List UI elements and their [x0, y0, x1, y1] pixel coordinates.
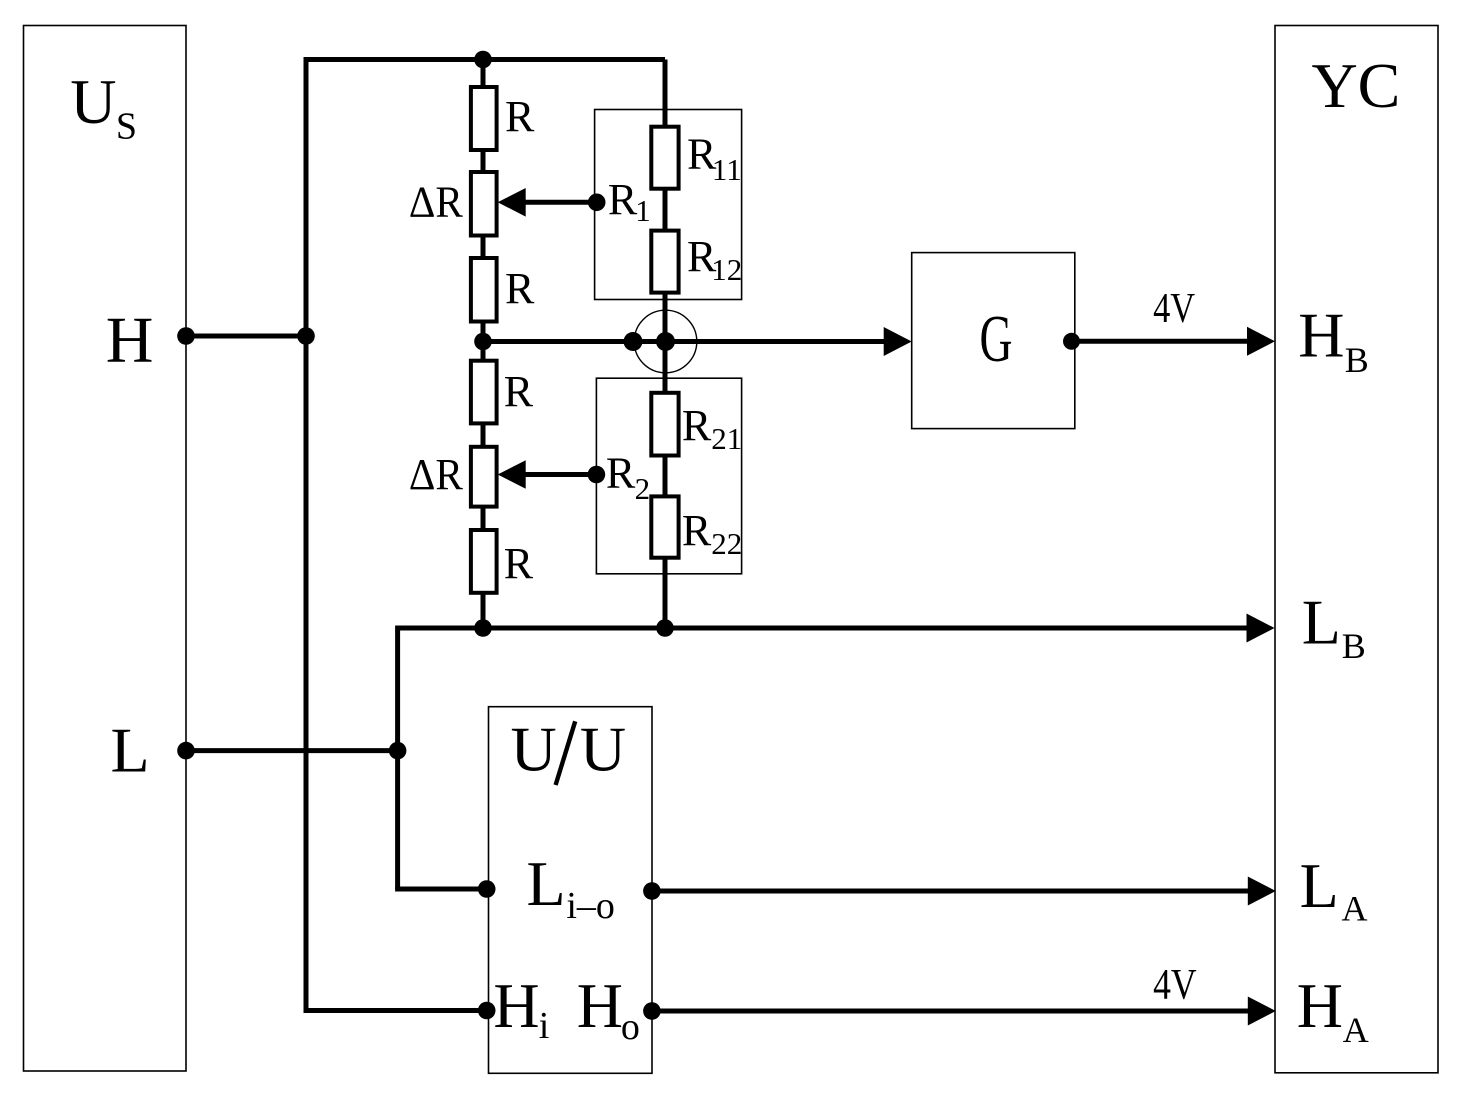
- label U/U: [510, 714, 626, 785]
- resistor R12: [651, 231, 678, 293]
- junction left of circle: [624, 332, 643, 351]
- resistor R (chain1 top): [471, 87, 497, 150]
- svg-text:G: G: [980, 302, 1013, 376]
- wire H_A output: [652, 1009, 1250, 1014]
- label R_12: [687, 232, 742, 287]
- svg-text:A: A: [1343, 1010, 1369, 1050]
- resistor R (chain1 bottom): [471, 530, 497, 593]
- resistor R (chain1 fourth): [471, 361, 497, 424]
- svg-text:R: R: [608, 175, 638, 224]
- wire L_i-o input: [395, 887, 488, 892]
- resistor R21: [651, 393, 678, 456]
- wire H from U_S to riser: [186, 334, 306, 339]
- svg-text:R: R: [505, 92, 535, 141]
- group box R2: [596, 378, 741, 574]
- junction L_i-o input: [478, 880, 496, 898]
- label H_A: [1297, 970, 1369, 1050]
- label L_A: [1300, 850, 1368, 929]
- resistor R11: [651, 127, 678, 189]
- svg-text:L: L: [111, 715, 150, 786]
- svg-text:21: 21: [711, 421, 742, 456]
- junction L at U_S edge: [177, 742, 195, 760]
- junction G output: [1063, 333, 1080, 350]
- label H_i: [493, 970, 549, 1047]
- resistor R22: [651, 496, 678, 557]
- svg-text:H: H: [493, 970, 539, 1041]
- svg-text:2: 2: [635, 471, 651, 506]
- label R_2: [606, 449, 650, 506]
- junction L_i-o output: [643, 882, 661, 900]
- arrowhead H_A: [1248, 997, 1276, 1026]
- svg-text:22: 22: [711, 526, 742, 561]
- wire H_i input: [304, 1008, 489, 1013]
- svg-text:L: L: [1300, 850, 1339, 921]
- label R_21: [682, 401, 742, 456]
- wire top bus: [304, 57, 666, 62]
- svg-text:B: B: [1342, 626, 1366, 666]
- svg-text:12: 12: [711, 252, 742, 287]
- arrowhead L_B: [1247, 614, 1275, 643]
- circle sampling node: [634, 310, 697, 373]
- svg-text:U: U: [510, 714, 556, 785]
- svg-text:R: R: [606, 449, 636, 498]
- svg-text:ΔR: ΔR: [409, 450, 464, 499]
- label L_B: [1302, 587, 1366, 666]
- svg-text:L: L: [527, 848, 566, 919]
- wire L from U_S to riser: [186, 748, 400, 753]
- block U/U isolator: [489, 707, 653, 1074]
- svg-text:R: R: [504, 539, 534, 588]
- resistor deltaR (chain1 upper potentiometer): [471, 172, 497, 236]
- block YC telemetry: [1275, 26, 1438, 1073]
- svg-text:1: 1: [635, 193, 651, 228]
- arrowhead into G: [884, 327, 912, 356]
- wire vertical from L_B bus to L_i-o (x=397.6): [395, 626, 400, 890]
- arrowhead L_A: [1248, 877, 1276, 906]
- svg-text:R: R: [504, 367, 534, 416]
- block G amplifier: [912, 253, 1075, 429]
- junction L_B / chain1: [474, 619, 492, 637]
- label R_1: [608, 175, 651, 228]
- group box R1: [595, 110, 742, 300]
- junction H / riser: [297, 327, 315, 345]
- svg-text:B: B: [1345, 340, 1369, 380]
- svg-text:i: i: [539, 1005, 550, 1047]
- svg-text:11: 11: [712, 152, 742, 187]
- wire R1 wiper arrow line: [521, 200, 597, 205]
- wire G output: [1075, 339, 1250, 344]
- arrowhead R1 wiper: [498, 188, 526, 217]
- svg-text:YC: YC: [1311, 50, 1400, 121]
- svg-text:S: S: [116, 105, 137, 147]
- svg-text:R: R: [682, 506, 712, 555]
- svg-text:4V: 4V: [1153, 286, 1195, 332]
- junction H at U_S edge: [177, 327, 195, 345]
- junction L / riser: [389, 742, 407, 760]
- wire node to amplifier G: [483, 339, 887, 344]
- svg-text:H: H: [106, 303, 154, 376]
- label L_i-o: [527, 848, 615, 927]
- wire resistor chain 1 (x=483): [481, 60, 486, 629]
- wire resistor chain 2 (x=665): [663, 60, 668, 629]
- svg-text:ΔR: ΔR: [409, 177, 464, 226]
- svg-text:R: R: [682, 401, 712, 450]
- label R_22: [682, 506, 742, 561]
- junction R2 wiper dot: [588, 466, 606, 484]
- junction H_i input: [478, 1002, 496, 1020]
- label H_B: [1298, 300, 1369, 380]
- label H_o: [577, 970, 640, 1048]
- svg-text:U: U: [70, 66, 116, 137]
- svg-text:R: R: [505, 264, 535, 313]
- svg-text:i–o: i–o: [566, 885, 615, 927]
- arrowhead H_B: [1247, 327, 1275, 356]
- junction chain1 node: [474, 333, 492, 351]
- junction R1 wiper dot: [588, 194, 606, 212]
- junction H_o output: [643, 1002, 661, 1020]
- label R_11: [687, 129, 742, 186]
- svg-text:A: A: [1342, 889, 1368, 929]
- svg-text:U: U: [580, 714, 626, 785]
- svg-text:4V: 4V: [1153, 962, 1197, 1009]
- wire L_A output: [652, 889, 1250, 894]
- svg-text:H: H: [1297, 970, 1343, 1041]
- svg-text:L: L: [1302, 587, 1341, 658]
- resistor deltaR (chain1 lower potentiometer): [471, 447, 497, 507]
- svg-text:o: o: [621, 1006, 640, 1048]
- wire H vertical riser (x=306): [304, 57, 309, 1011]
- arrowhead R2 wiper: [498, 460, 526, 489]
- wire R2 wiper arrow line: [521, 472, 596, 477]
- wire L_B bus: [398, 626, 1250, 631]
- junction top bus / chain1: [474, 51, 492, 69]
- junction L_B / chain2: [656, 619, 674, 637]
- svg-text:H: H: [577, 970, 623, 1041]
- junction circle center: [656, 332, 675, 351]
- label U_S: [70, 66, 137, 148]
- block U_S source: [24, 26, 187, 1072]
- svg-text:H: H: [1298, 300, 1344, 371]
- resistor R (chain1 third): [471, 258, 497, 322]
